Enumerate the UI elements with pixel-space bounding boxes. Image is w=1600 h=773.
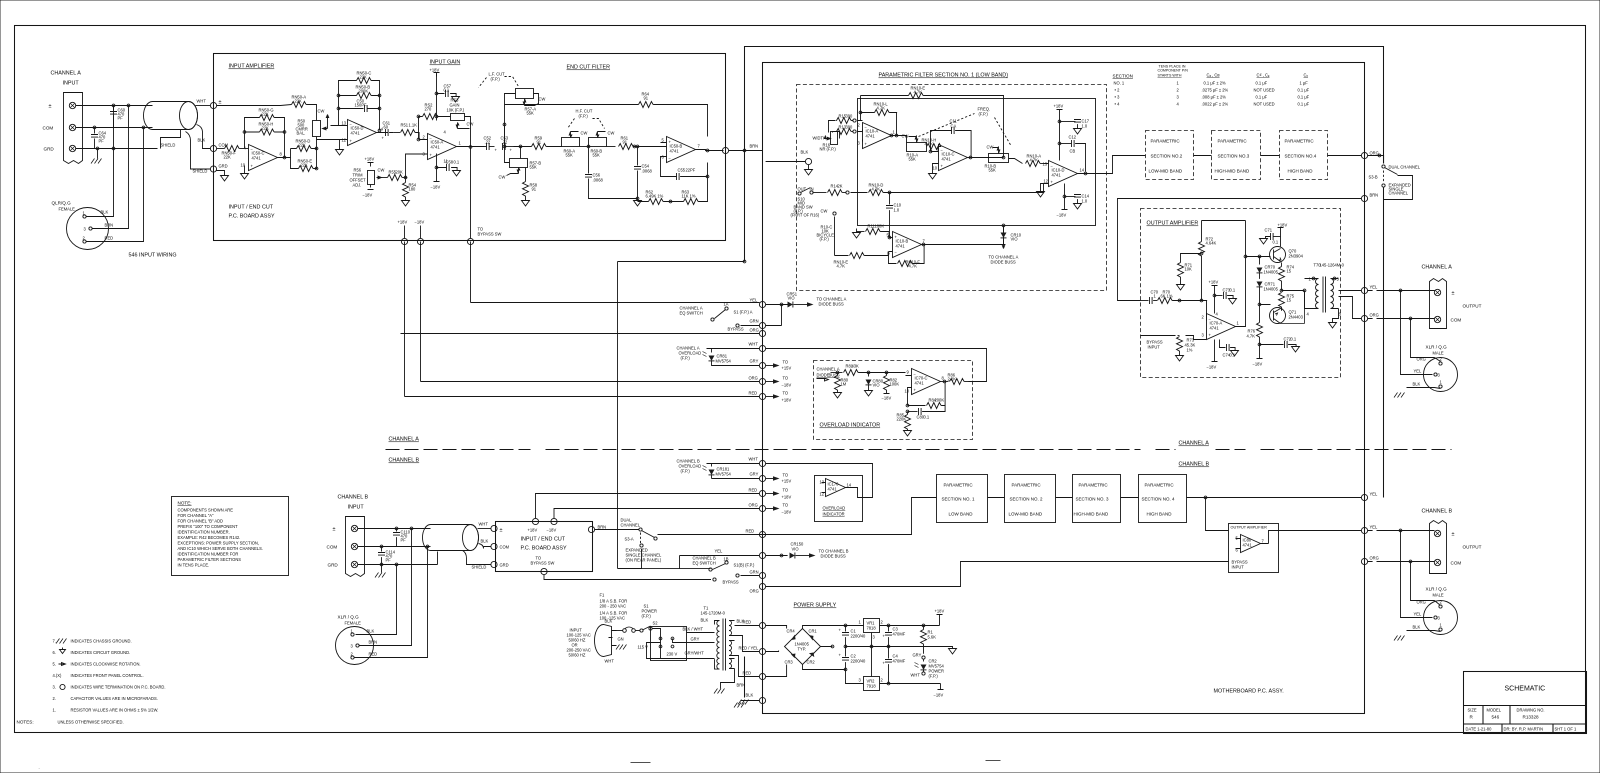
svg-text:(F.P.): (F.P.) <box>820 237 830 242</box>
svg-text:2.: 2. <box>53 696 56 701</box>
svg-text:3: 3 <box>1202 333 1205 338</box>
ground rail mid power supply <box>846 646 945 648</box>
power -18V Q71 <box>1257 345 1263 359</box>
svg-text:4741: 4741 <box>1210 326 1220 331</box>
svg-text:YEL: YEL <box>1370 285 1378 290</box>
svg-text:INDICATES FRONT PANEL CONTROL.: INDICATES FRONT PANEL CONTROL. <box>71 673 144 678</box>
svg-text:CHANNEL A: CHANNEL A <box>1179 441 1210 447</box>
potentiometer R60-A 55K <box>562 138 580 147</box>
svg-text:11K 1%: 11K 1% <box>682 194 696 199</box>
op-amp IC10-B <box>893 232 922 258</box>
svg-text:(F.P.): (F.P.) <box>979 112 989 117</box>
shielded cable channel B <box>423 525 479 551</box>
svg-text:−: − <box>669 156 672 161</box>
power +18V Q70 <box>1278 228 1284 232</box>
svg-text:±: ± <box>1452 291 1455 297</box>
svg-text:RED: RED <box>746 529 755 534</box>
overload indicator channel A dashed box <box>814 361 973 440</box>
svg-text:4741: 4741 <box>252 156 262 161</box>
output amplifier channel A dashed box <box>1141 209 1341 378</box>
svg-text:INPUT: INPUT <box>348 505 365 511</box>
svg-text:BYPASS: BYPASS <box>723 580 739 585</box>
parametric filter No.1 dashed enclosure <box>797 85 1107 291</box>
parametric section no.2 channel A box <box>1146 131 1194 180</box>
svg-text:MOTHERBOARD P.C. ASSY.: MOTHERBOARD P.C. ASSY. <box>1214 689 1284 695</box>
svg-text:3: 3 <box>858 141 861 146</box>
svg-text:0.1: 0.1 <box>924 415 930 420</box>
svg-text:8: 8 <box>280 152 283 157</box>
svg-text:END CUT FILTER: END CUT FILTER <box>567 65 611 71</box>
svg-text:CW: CW <box>581 131 588 136</box>
svg-text:HIGH-MID BAND: HIGH-MID BAND <box>1074 512 1110 517</box>
svg-text:YEL: YEL <box>1414 369 1422 374</box>
power +18V IC10-D <box>1057 110 1063 114</box>
svg-text:SECTION NO. 3: SECTION NO. 3 <box>1076 497 1110 502</box>
capacitor C58 0.1 <box>437 154 458 171</box>
svg-text:YEL: YEL <box>1370 492 1378 497</box>
svg-text:4.64K: 4.64K <box>1206 241 1217 246</box>
svg-text:CHANNEL B: CHANNEL B <box>1422 509 1453 515</box>
svg-text:GRN: GRN <box>750 319 759 324</box>
svg-text:5.: 5. <box>53 662 56 667</box>
svg-text:3: 3 <box>1438 373 1441 378</box>
svg-text:5: 5 <box>1236 536 1239 541</box>
power -18V supply output <box>936 684 944 690</box>
svg-text:ADJ.: ADJ. <box>353 183 362 188</box>
svg-text:+18V: +18V <box>1278 223 1288 228</box>
wire ORG row channel A <box>401 333 760 335</box>
svg-text:C58: C58 <box>446 160 454 165</box>
capacitor C74 0.1 <box>1220 340 1226 348</box>
svg-text:+: + <box>495 148 498 153</box>
svg-text:PARAMETRIC: PARAMETRIC <box>1151 139 1181 144</box>
svg-text:546 INPUT WIRING: 546 INPUT WIRING <box>129 253 177 259</box>
svg-text:3: 3 <box>873 635 876 640</box>
capacitor C114 470PF <box>381 547 383 552</box>
svg-text:CW: CW <box>318 109 325 114</box>
svg-text:CHANNEL: CHANNEL <box>621 523 641 528</box>
wire feedback R72 top <box>1202 220 1246 222</box>
svg-text:BLK: BLK <box>481 539 489 544</box>
svg-text:R: R <box>1470 715 1474 720</box>
svg-text:INPUT / END CUT: INPUT / END CUT <box>521 537 566 543</box>
svg-text:XLR / Q.G: XLR / Q.G <box>1426 345 1448 350</box>
svg-text:CAPACITOR VALUES ARE IN MICROF: CAPACITOR VALUES ARE IN MICROFARADS. <box>71 696 158 701</box>
svg-text:12: 12 <box>1044 179 1049 184</box>
svg-text:10: 10 <box>933 166 938 171</box>
wire BLK XLR pin1 <box>87 106 114 217</box>
svg-text:4.7K: 4.7K <box>837 264 846 269</box>
svg-text:50/60 HZ: 50/60 HZ <box>569 653 586 658</box>
svg-text:ORG: ORG <box>749 503 758 508</box>
svg-text:BAL.: BAL. <box>297 131 306 136</box>
svg-text:YEL: YEL <box>1370 525 1378 530</box>
wire ORG -18V row channel A <box>421 242 760 382</box>
svg-text:±: ± <box>500 528 503 534</box>
wire ORG to XLR pin2 <box>1411 319 1441 362</box>
transistor Q70 2N3904 <box>1270 247 1286 263</box>
svg-text:3.: 3. <box>53 685 56 690</box>
op-amp IC10-A <box>863 123 892 149</box>
svg-text:IDENTIFICATION NUMBER.: IDENTIFICATION NUMBER. <box>178 530 230 535</box>
screw terminal plus/minus <box>69 102 75 108</box>
diode CR70 1N4005 <box>1259 257 1261 265</box>
svg-text:COMPONENT P/N: COMPONENT P/N <box>1158 69 1189 73</box>
svg-text:60: 60 <box>384 125 389 130</box>
svg-text:4: 4 <box>244 146 247 151</box>
svg-text:91: 91 <box>532 187 537 192</box>
svg-text:GN: GN <box>618 637 624 642</box>
svg-text:POWER SUPPLY: POWER SUPPLY <box>794 603 837 609</box>
input/end cut PC board box <box>214 54 726 241</box>
wire BRN XLR female channel B <box>360 529 412 646</box>
svg-text:RED: RED <box>749 488 758 493</box>
terminal strip channel B input <box>346 517 365 577</box>
svg-text:RED: RED <box>105 236 114 241</box>
wire RED row to parametric chain B <box>658 498 937 535</box>
node GRD on board edge <box>210 166 216 172</box>
chassis ground XLR channel A <box>1394 393 1405 398</box>
potentiometer R50 500 CMRR BAL <box>313 121 321 137</box>
wire parametric chain channel B <box>988 497 1362 499</box>
svg-text:GRY/WHT: GRY/WHT <box>685 651 705 656</box>
wire channel B COM <box>358 546 431 548</box>
svg-text:4: 4 <box>444 130 447 135</box>
svg-text:C71: C71 <box>1265 228 1273 233</box>
wire outer routing loop <box>745 47 1384 698</box>
capacitor C60 470PF <box>113 106 115 128</box>
output amplifier channel B box <box>1229 524 1279 573</box>
svg-text:±: ± <box>1452 532 1455 538</box>
resistor RN50-F 22K <box>217 148 225 150</box>
wire ORG vertical link <box>618 262 745 569</box>
diode bridge CR1-CR4 1N4005 <box>785 629 821 665</box>
svg-text:4: 4 <box>1216 312 1219 317</box>
svg-text:WHT: WHT <box>749 457 759 462</box>
svg-text:PREFIX "100" TO COMPONENT: PREFIX "100" TO COMPONENT <box>178 524 239 529</box>
svg-text:4.7K: 4.7K <box>909 264 918 269</box>
terminal strip channel B output <box>1430 521 1447 574</box>
switch S3-A dual/expanded <box>595 529 639 531</box>
regulator VR2 7918 <box>864 677 880 691</box>
svg-text:CB: CB <box>1070 149 1076 154</box>
svg-text:C12: C12 <box>1069 135 1077 140</box>
svg-text:43K: 43K <box>852 364 860 369</box>
svg-text:±: ± <box>49 104 52 110</box>
node YEL expanded channel B <box>1361 494 1367 500</box>
svg-text:14: 14 <box>1080 168 1085 173</box>
svg-text:22K: 22K <box>299 143 307 148</box>
svg-text:INPUT GAIN: INPUT GAIN <box>430 60 461 66</box>
diode CR51 VIO to diode buss <box>766 304 788 306</box>
svg-text:4: 4 <box>1177 102 1180 107</box>
wire R55 to IC50-A pin3 <box>406 154 428 178</box>
svg-text:0.1 μF: 0.1 μF <box>1298 88 1310 93</box>
svg-text:BRN: BRN <box>1370 193 1379 198</box>
svg-text:1: 1 <box>1440 380 1443 385</box>
node ORG channel A chain output <box>1361 152 1367 158</box>
svg-text:4741: 4741 <box>866 134 876 139</box>
svg-text:6.49K 1%: 6.49K 1% <box>646 194 664 199</box>
svg-text:INPUT / END CUT: INPUT / END CUT <box>229 205 274 211</box>
svg-text:TO: TO <box>783 360 789 365</box>
svg-text:CHANNEL: CHANNEL <box>1389 191 1409 196</box>
wire BRN to output amplifier input <box>1118 199 1362 301</box>
wires RN50-D/E network <box>291 137 331 169</box>
wire IC50-B output to BRN node <box>696 150 724 151</box>
svg-text:55K: 55K <box>593 153 601 158</box>
svg-text:1%: 1% <box>1187 348 1193 353</box>
terminal strip channel A output <box>1430 279 1447 329</box>
svg-text:4: 4 <box>1307 312 1310 317</box>
motherboard PC assy box <box>763 63 1365 714</box>
svg-text:+: + <box>430 153 433 158</box>
svg-text:0.1: 0.1 <box>1230 288 1236 293</box>
svg-text:+15V: +15V <box>782 479 792 484</box>
svg-text:ORG: ORG <box>1370 556 1379 561</box>
wire YEL to output terminal <box>1368 290 1435 292</box>
svg-text:• 3: • 3 <box>1115 95 1121 100</box>
node ORG channel B output <box>1361 558 1367 564</box>
svg-text:3: 3 <box>84 227 87 232</box>
svg-text:CHANNEL A: CHANNEL A <box>389 437 420 443</box>
wire SHIELD from cable <box>161 130 211 170</box>
svg-text:4741: 4741 <box>896 244 906 249</box>
switch S3-B dual/expanded <box>1368 156 1384 164</box>
diode CR10 VIO to channel A diode buss <box>1003 226 1005 233</box>
svg-text:Cₐ , Cʙ: Cₐ , Cʙ <box>1207 73 1220 78</box>
svg-text:+18V: +18V <box>935 609 945 614</box>
svg-text:.0275 μF ± 2%: .0275 μF ± 2% <box>1202 88 1229 93</box>
svg-text:S1(B) (F.P.): S1(B) (F.P.) <box>734 563 755 568</box>
svg-text:1.0: 1.0 <box>1082 124 1088 129</box>
svg-text:4.7K: 4.7K <box>877 106 886 111</box>
regulator VR1 7818 <box>864 619 880 633</box>
wire GRY row channel B <box>712 478 760 480</box>
circuit ground power supply <box>945 647 953 649</box>
svg-text:S1 (F.P.) A: S1 (F.P.) A <box>734 310 753 315</box>
svg-text:OUT: OUT <box>798 187 807 192</box>
wire WHT from cable <box>196 105 211 107</box>
wire YEL to XLR pin3 channel B <box>1401 531 1433 618</box>
node WHT channel B board <box>491 525 497 531</box>
svg-text:R51: R51 <box>401 123 409 128</box>
svg-text:GRD: GRD <box>328 563 339 568</box>
svg-text:GRY: GRY <box>750 359 759 364</box>
svg-text:BYPASS: BYPASS <box>728 327 744 332</box>
svg-text:4741: 4741 <box>1243 543 1253 548</box>
svg-text:INPUT: INPUT <box>63 81 80 87</box>
svg-text:COM: COM <box>1451 318 1462 323</box>
svg-text:GRY: GRY <box>913 653 922 658</box>
op-amp IC70-A <box>1207 314 1236 340</box>
node BRN channel B board output <box>588 526 594 532</box>
op-amp IC50-A <box>428 134 457 160</box>
svg-text:+: + <box>1051 180 1054 185</box>
svg-text:CR2: CR2 <box>807 660 816 665</box>
potentiometer R57-B 55K <box>510 159 528 168</box>
svg-text:NR (F.P.): NR (F.P.) <box>820 147 837 152</box>
svg-text:+: + <box>941 164 944 169</box>
svg-text:OUTPUT AMPLIFIER: OUTPUT AMPLIFIER <box>1147 221 1199 227</box>
capacitor C17 1.0 <box>1060 121 1076 123</box>
parametric section no.3 channel B box <box>1073 475 1121 523</box>
svg-text:+18V: +18V <box>528 528 538 533</box>
svg-text:NOTE:: NOTE: <box>178 501 192 506</box>
svg-text:+: + <box>251 164 254 169</box>
svg-text:SCHEMATIC: SCHEMATIC <box>1505 686 1546 693</box>
parametric section no.4 channel A box <box>1280 131 1328 180</box>
potentiometer R10-B 55K <box>989 154 1009 163</box>
svg-text:PF: PF <box>99 139 105 144</box>
wire YEL to channel B terminal <box>1368 530 1435 532</box>
wire ORG -18V row channel B <box>759 505 765 511</box>
svg-text:INDICATES WIRE TERMINATION ON: INDICATES WIRE TERMINATION ON P.C. BOARD… <box>71 685 166 690</box>
svg-text:(ON REAR PANEL): (ON REAR PANEL) <box>626 558 662 563</box>
svg-text:7: 7 <box>1262 539 1265 544</box>
svg-text:TO: TO <box>783 488 789 493</box>
svg-text:EQ SWITCH: EQ SWITCH <box>693 561 716 566</box>
svg-text:1.0: 1.0 <box>894 208 900 213</box>
svg-text:100K: 100K <box>890 382 900 387</box>
svg-text:PARAMETRIC: PARAMETRIC <box>1218 139 1248 144</box>
svg-text:1: 1 <box>1440 623 1443 628</box>
svg-text:DATE 1-21-80: DATE 1-21-80 <box>1466 727 1493 732</box>
svg-text:COM: COM <box>1451 561 1462 566</box>
svg-text:SECTION NO. 1: SECTION NO. 1 <box>942 497 976 502</box>
wire WHT row channel B <box>707 464 873 498</box>
capacitor C71 0.1 <box>1274 236 1281 238</box>
svg-text:RED: RED <box>369 652 378 657</box>
svg-text:−18V: −18V <box>934 693 944 698</box>
svg-text:7.: 7. <box>53 639 56 644</box>
svg-text:0.1: 0.1 <box>444 88 450 93</box>
svg-text:BRN: BRN <box>750 144 759 149</box>
svg-text:SHIELD: SHIELD <box>472 565 487 570</box>
svg-text:INDICATES CLOCKWISE ROTATION.: INDICATES CLOCKWISE ROTATION. <box>71 662 141 667</box>
svg-text:1A: 1A <box>724 302 729 307</box>
svg-text:CHANNEL B: CHANNEL B <box>389 458 420 464</box>
svg-text:.0068: .0068 <box>642 169 653 174</box>
svg-text:RED: RED <box>749 391 758 396</box>
svg-text:CW: CW <box>821 209 828 214</box>
svg-text:1: 1 <box>1237 321 1240 326</box>
capacitor C72 0.1 <box>1260 344 1284 346</box>
svg-text:PARAMETRIC: PARAMETRIC <box>1145 483 1175 488</box>
chassis ground channel B input <box>381 565 383 573</box>
wire ORG to channel B COM <box>1368 561 1435 563</box>
diode CR71 1N4005 <box>1257 282 1263 287</box>
svg-text:6: 6 <box>662 155 665 160</box>
svg-text:−18V: −18V <box>1207 365 1217 370</box>
svg-text:FOR CHANNEL "B" ADD: FOR CHANNEL "B" ADD <box>178 519 224 524</box>
op-amp IC170-B <box>1241 535 1261 553</box>
fuse F1 <box>617 630 623 632</box>
svg-text:2: 2 <box>1202 315 1205 320</box>
svg-text:−18V: −18V <box>363 193 373 198</box>
svg-text:ORG: ORG <box>1417 357 1426 362</box>
node BRN expanded routing <box>1361 195 1367 201</box>
svg-text:CW: CW <box>902 134 909 139</box>
svg-text:UNLESS OTHERWISE SPECIFIED.: UNLESS OTHERWISE SPECIFIED. <box>58 720 124 725</box>
svg-text:GRN: GRN <box>750 570 759 575</box>
svg-text:TYP.: TYP. <box>798 647 807 652</box>
svg-text:CW: CW <box>378 168 385 173</box>
wire WHT row channel A <box>707 349 987 382</box>
svg-text:13: 13 <box>342 121 347 126</box>
svg-text:2: 2 <box>423 135 426 140</box>
svg-text:2200/40: 2200/40 <box>851 659 867 664</box>
svg-text:2N4403: 2N4403 <box>1289 315 1304 320</box>
svg-text:10K: 10K <box>1185 267 1193 272</box>
svg-text:−18V: −18V <box>782 510 792 515</box>
svg-text:0.1: 0.1 <box>1291 337 1297 342</box>
wire +18V channel B to bus <box>536 494 760 519</box>
wire ORG row channel B to bypass input <box>759 583 765 589</box>
wire expanded contact channel B <box>642 549 711 569</box>
wire IC10-A output <box>892 136 907 143</box>
svg-text:OUTPUT: OUTPUT <box>1463 545 1482 550</box>
svg-text:RED: RED <box>743 620 752 625</box>
svg-text:BRN: BRN <box>737 683 746 688</box>
svg-text:1: 1 <box>859 620 862 625</box>
svg-text:+18V: +18V <box>1209 280 1219 285</box>
svg-text:PARAMETRIC: PARAMETRIC <box>944 483 974 488</box>
svg-text:WIDTH: WIDTH <box>813 136 826 141</box>
svg-text:+: + <box>883 661 886 666</box>
svg-text:.22: .22 <box>485 140 491 145</box>
svg-text:−18V: −18V <box>1057 213 1067 218</box>
wire BLK from cable <box>197 125 211 149</box>
op-amp IC50-C <box>249 145 278 171</box>
circuit ground IC10-C pin10 <box>933 164 939 174</box>
svg-text:PARAMETRIC: PARAMETRIC <box>1012 483 1042 488</box>
chassis ground XLR channel B <box>1394 636 1405 641</box>
svg-text:VIO: VIO <box>873 383 880 388</box>
svg-text:FEMALE: FEMALE <box>345 621 362 626</box>
svg-text:.: . <box>39 765 40 770</box>
capacitor C56 .0068 <box>588 147 590 174</box>
svg-text:PARAMETRIC: PARAMETRIC <box>1285 139 1315 144</box>
svg-text:1: 1 <box>1309 277 1312 282</box>
svg-text:WHT: WHT <box>479 522 489 527</box>
svg-text:4741: 4741 <box>431 145 441 150</box>
svg-text:13: 13 <box>1043 162 1048 167</box>
svg-text:13: 13 <box>820 480 825 485</box>
svg-text:WHT: WHT <box>197 99 207 104</box>
power -18V IC70-A <box>1212 340 1218 362</box>
wire IC50-A output <box>457 146 485 148</box>
svg-text:• 4: • 4 <box>1115 102 1121 107</box>
wire bypass channel B <box>544 575 711 580</box>
svg-text:DIODE BUSS: DIODE BUSS <box>821 554 847 559</box>
svg-text:ORG: ORG <box>750 589 759 594</box>
power -18V IC50-A <box>434 168 440 182</box>
op-amp IC170-C <box>826 479 846 497</box>
svg-text:+18V: +18V <box>782 495 792 500</box>
svg-text:C₫ , Cₑ: C₫ , Cₑ <box>1257 73 1270 78</box>
svg-text:SECTION NO. 4: SECTION NO. 4 <box>1142 497 1176 502</box>
capacitor C53 .22 <box>503 143 506 150</box>
svg-text:RED: RED <box>743 671 752 676</box>
svg-text:+18V: +18V <box>430 68 440 73</box>
svg-text:BYPASS SW: BYPASS SW <box>531 561 555 566</box>
svg-text:IN TENS PLACE.: IN TENS PLACE. <box>178 563 210 568</box>
svg-text:TO: TO <box>783 376 789 381</box>
wire WHT channel B <box>478 528 491 530</box>
svg-text:470MF: 470MF <box>893 632 906 637</box>
svg-text:EXCEPTIONS: POWER SUPPLY SECTI: EXCEPTIONS: POWER SUPPLY SECTION, <box>178 541 260 546</box>
